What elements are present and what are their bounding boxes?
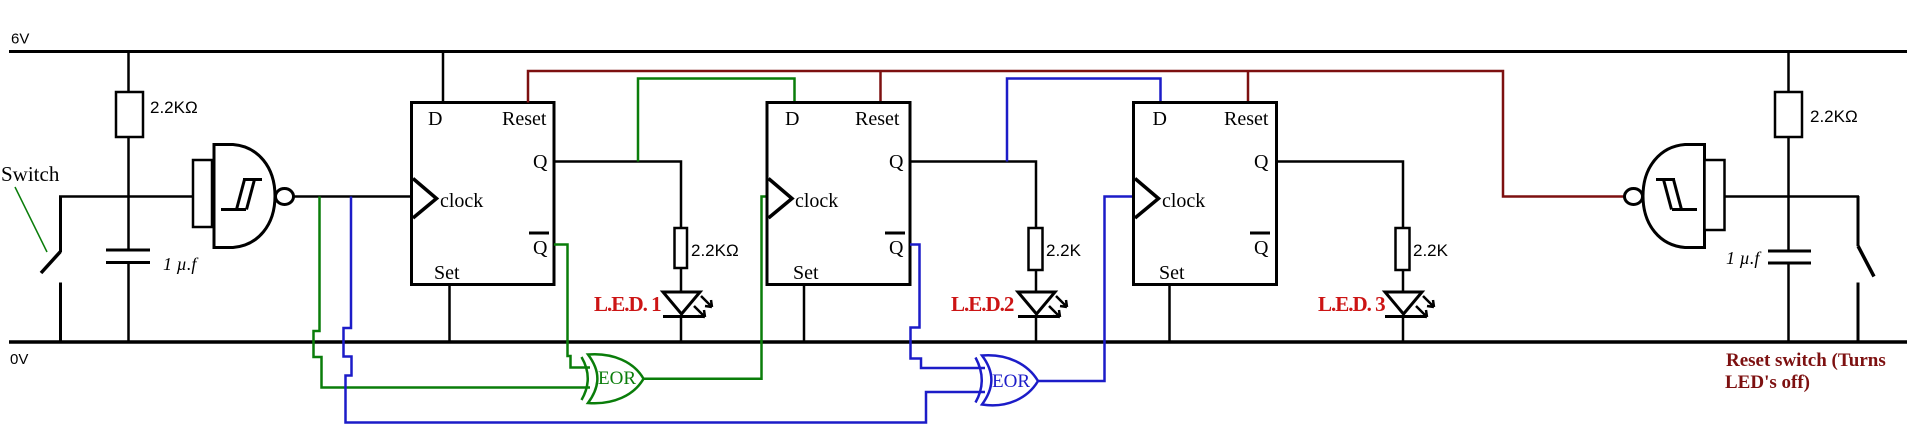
wire LED2 to 0V	[1035, 316, 1038, 341]
svg-text:Switch: Switch	[1, 162, 60, 186]
svg-text:2.2KΩ: 2.2KΩ	[150, 98, 198, 117]
wire R4 to LED3	[1402, 270, 1405, 292]
wire blue EOR2 output to FF3 clock	[1038, 197, 1133, 382]
svg-text:clock: clock	[440, 190, 483, 212]
wire R1 to node and capacitor C1	[127, 137, 130, 250]
schmitt trigger U5 input box	[1705, 160, 1725, 230]
flip-flop U4 box	[1134, 103, 1277, 285]
clock triangle FF1	[413, 179, 437, 219]
capacitor C1	[106, 250, 150, 263]
LED D3	[1385, 292, 1434, 317]
svg-text:LED's off): LED's off)	[1725, 372, 1810, 393]
wire R2 to LED1	[680, 268, 683, 292]
pin label Qbar FF2	[885, 233, 905, 259]
svg-text:Q: Q	[533, 151, 548, 173]
svg-text:Q: Q	[889, 151, 904, 173]
wire 6V rail	[9, 50, 1907, 53]
svg-text:2.2K: 2.2K	[1413, 241, 1449, 260]
LED D1	[663, 292, 712, 317]
flip-flop U3 box	[767, 103, 910, 285]
resistor R3	[1029, 228, 1043, 270]
schmitt trigger U5 body (mirrored)	[1643, 145, 1705, 248]
wire reset branch FF2	[879, 71, 882, 103]
wire C2 to 0V	[1787, 264, 1790, 341]
svg-text:D: D	[1153, 108, 1167, 130]
wire R3 to LED2	[1035, 270, 1038, 292]
pin label Qbar FF1	[529, 233, 549, 259]
resistor R4	[1396, 228, 1410, 270]
svg-text:EOR: EOR	[598, 368, 636, 389]
svg-text:Set: Set	[434, 262, 460, 284]
wire FF1 Q to R2	[554, 162, 681, 229]
wire blue FF2 Q to FF3 D	[1007, 79, 1161, 162]
wire FF1 Set to 0V	[448, 285, 451, 342]
svg-text:2.2KΩ: 2.2KΩ	[1810, 107, 1858, 126]
LED D2	[1018, 292, 1067, 317]
schmitt hysteresis symbol U5	[1656, 180, 1697, 210]
schmitt hysteresis symbol U1	[221, 180, 262, 210]
switch S1	[41, 196, 61, 342]
svg-text:2.2K: 2.2K	[1046, 241, 1082, 260]
wire FF1 D to 6V	[442, 52, 445, 103]
xor gate EOR2	[976, 355, 1039, 405]
svg-text:1 µ.f: 1 µ.f	[1726, 248, 1762, 268]
wire FF3 Q to R4	[1277, 162, 1403, 229]
svg-text:Q: Q	[889, 237, 904, 259]
wire blue clock tap to EOR2 lower input	[344, 197, 986, 423]
wire FF2 Set to 0V	[803, 285, 806, 342]
wire C1 to 0V	[127, 264, 130, 341]
output bubble U1	[276, 189, 294, 205]
flip-flop U2 box	[412, 103, 555, 285]
resistor R1	[116, 92, 143, 137]
wire U1 output to FF1 clock	[293, 195, 412, 198]
pin label Qbar FF3	[1250, 233, 1270, 259]
wire R5 through node to capacitor C2	[1787, 137, 1790, 250]
capacitor C2	[1768, 251, 1811, 263]
wire 0V rail	[9, 340, 1907, 343]
wire green clock tap to EOR1 lower input	[314, 197, 591, 388]
wire green FF1 Qbar to EOR1 upper input	[554, 245, 590, 368]
svg-text:L.E.D.2: L.E.D.2	[951, 292, 1014, 316]
svg-text:clock: clock	[1162, 190, 1205, 212]
svg-text:Set: Set	[793, 262, 819, 284]
output bubble U5	[1625, 189, 1643, 205]
svg-text:0V: 0V	[10, 351, 28, 368]
wire LED3 to 0V	[1402, 316, 1405, 341]
wire blue FF2 Qbar to EOR2 upper input	[910, 245, 985, 369]
schmitt trigger U1 body	[214, 145, 275, 248]
wire 6V to R5	[1787, 52, 1790, 93]
resistor R5	[1775, 92, 1802, 137]
svg-text:L.E.D. 1: L.E.D. 1	[594, 292, 661, 316]
svg-text:Q: Q	[1254, 237, 1269, 259]
svg-text:6V: 6V	[11, 31, 29, 48]
wire switch to gate input	[59, 195, 193, 198]
svg-text:Reset switch (Turns: Reset switch (Turns	[1726, 350, 1886, 371]
label Reset switch	[1725, 350, 1886, 393]
clock triangle FF3	[1135, 179, 1159, 219]
switch S2	[1858, 196, 1874, 342]
wire 6V to R1	[127, 52, 130, 93]
annotation line to switch	[15, 187, 47, 252]
svg-text:Reset: Reset	[855, 108, 900, 130]
clock triangle FF2	[769, 179, 793, 219]
svg-text:Q: Q	[533, 237, 548, 259]
svg-text:Reset: Reset	[502, 108, 547, 130]
wire U5 input side to switch S2	[1725, 195, 1860, 198]
wire green EOR1 output to FF2 clock	[643, 197, 766, 379]
resistor R2	[675, 228, 688, 268]
wire FF2 Q to R3	[910, 162, 1036, 229]
svg-text:EOR: EOR	[992, 371, 1030, 392]
svg-text:L.E.D. 3: L.E.D. 3	[1318, 292, 1385, 316]
wire FF3 Set to 0V	[1168, 285, 1171, 342]
svg-text:Reset: Reset	[1224, 108, 1269, 130]
wire reset branch FF3	[1247, 71, 1250, 103]
svg-text:1 µ.f: 1 µ.f	[163, 254, 199, 274]
xor gate EOR1	[582, 354, 644, 403]
svg-text:Q: Q	[1254, 151, 1269, 173]
wire reset net dark red	[528, 71, 1626, 197]
svg-text:D: D	[428, 108, 442, 130]
svg-text:D: D	[785, 108, 799, 130]
schmitt trigger U1 input box	[193, 160, 212, 227]
svg-text:2.2KΩ: 2.2KΩ	[691, 241, 739, 260]
svg-text:Set: Set	[1159, 262, 1185, 284]
wire LED1 to 0V	[680, 316, 683, 341]
wire green FF1 Q to FF2 D	[638, 79, 795, 162]
svg-text:clock: clock	[795, 190, 838, 212]
